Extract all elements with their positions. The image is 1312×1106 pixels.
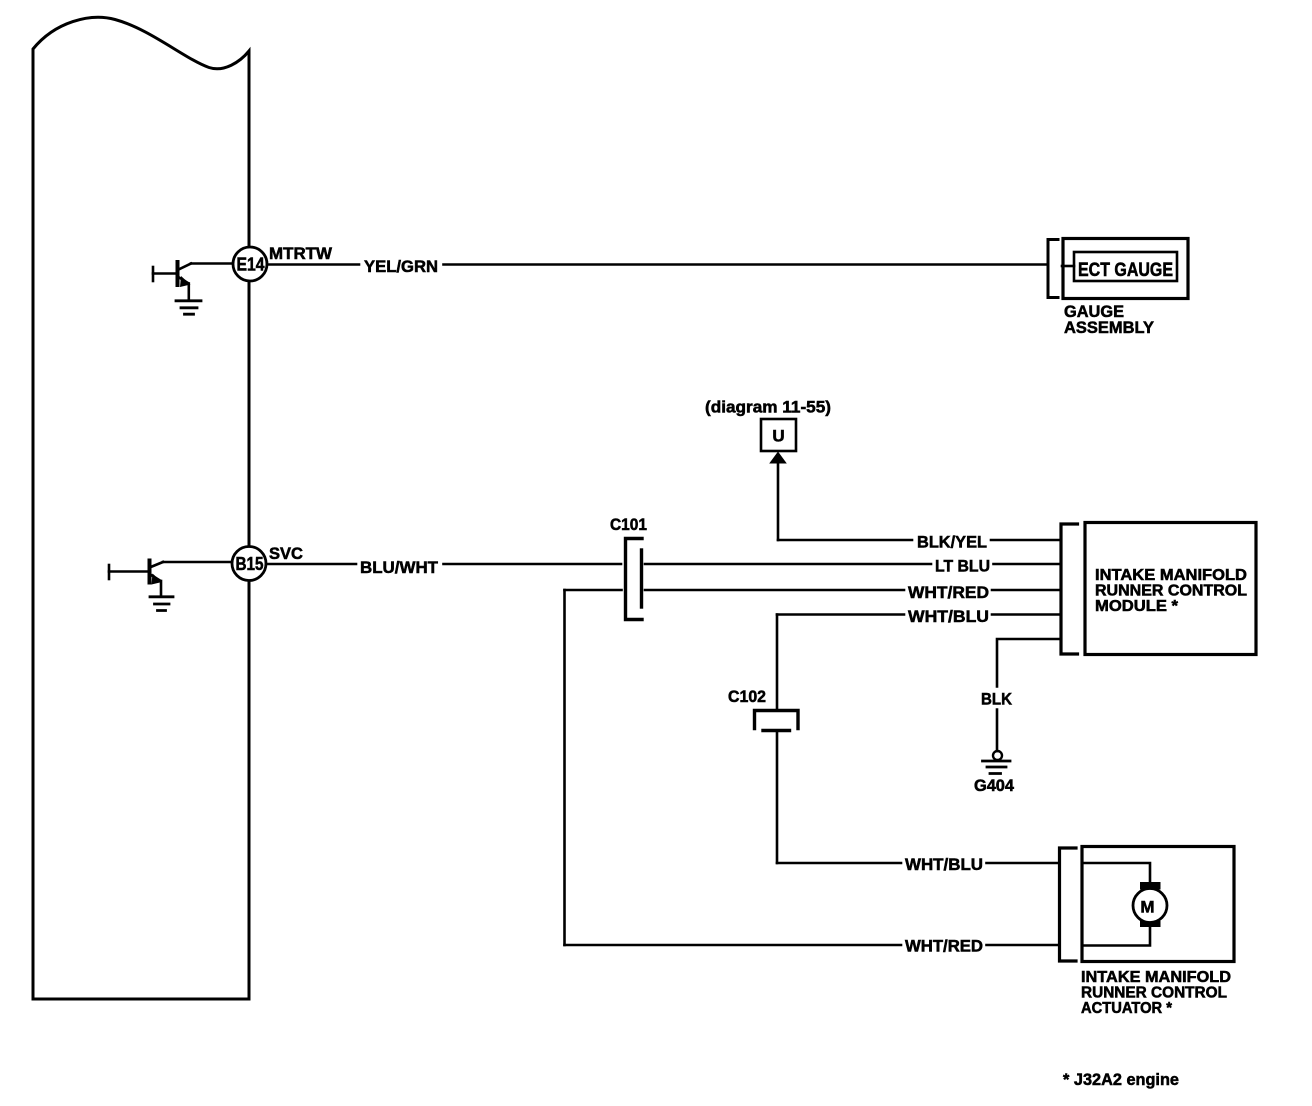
gauge assembly connector bracket [1048,240,1058,298]
svg-text:SVC: SVC [269,544,303,563]
actuator internal wires [1082,863,1150,946]
svg-text:RUNNER CONTROL: RUNNER CONTROL [1095,583,1247,600]
wire WHT/RED vertical riser [563,590,566,945]
label INTAKE MANIFOLD RUNNER CONTROL ACTUATOR [1081,969,1231,1017]
wire Q1 collector to E14 [191,262,234,265]
connector B15 [232,547,266,581]
svg-text:ASSEMBLY: ASSEMBLY [1064,318,1155,337]
svg-text:U: U [772,427,784,446]
U box (diagram reference) [761,419,796,451]
wire WHT/RED lower [565,944,1059,947]
connector C102 [755,711,799,731]
wire BLK/YEL [778,539,1061,542]
svg-text:RUNNER CONTROL: RUNNER CONTROL [1081,985,1227,1002]
svg-text:M: M [1140,898,1154,917]
wire WHT/BLU vertical through C102 [776,615,779,864]
svg-text:INTAKE MANIFOLD: INTAKE MANIFOLD [1095,567,1247,584]
label GAUGE ASSEMBLY [1064,302,1155,337]
transistor Q2 [109,561,163,596]
wire WHT/BLU upper [777,613,1061,616]
svg-text:ECT GAUGE: ECT GAUGE [1078,260,1173,281]
wire stub to ECT gauge [1062,265,1074,268]
ECM/PCM module outline (torn-top box) [33,17,249,999]
svg-text:ACTUATOR *: ACTUATOR * [1081,1000,1173,1017]
arrow head [769,452,787,464]
transistor Q1 [153,262,191,299]
module connector bracket [1061,524,1078,654]
wire YEL/GRN [267,263,1047,266]
gauge assembly box [1063,239,1188,299]
wire WHT/RED upper [565,589,1062,592]
connector E14 [233,247,267,281]
wire BLU/WHT [266,563,621,566]
svg-text:INTAKE MANIFOLD: INTAKE MANIFOLD [1081,969,1231,986]
wire Q2 collector to B15 [163,561,233,564]
svg-text:WHT/BLU: WHT/BLU [905,855,983,874]
ground (Q1 emitter) [176,301,201,314]
connector C101 [626,539,643,620]
svg-text:E14: E14 [237,255,265,275]
intake manifold runner control actuator box [1082,847,1234,962]
svg-text:C101: C101 [610,515,647,534]
ground (Q2 emitter) [150,597,173,611]
svg-text:BLU/WHT: BLU/WHT [360,558,439,577]
svg-text:BLK: BLK [981,690,1013,709]
svg-text:C102: C102 [728,687,766,706]
svg-text:LT BLU: LT BLU [935,557,990,576]
wire riser to U box [777,460,780,540]
wire LT BLU [645,563,1061,566]
ECT gauge box [1074,252,1177,281]
svg-text:BLK/YEL: BLK/YEL [917,533,987,552]
svg-text:WHT/BLU: WHT/BLU [908,607,989,626]
wire BLK [997,639,1061,751]
intake manifold runner control module box [1085,523,1256,655]
svg-text:B15: B15 [236,554,264,574]
svg-text:MODULE *: MODULE * [1095,598,1179,615]
ground G404 symbol [983,751,1011,774]
actuator connector bracket [1060,848,1077,961]
svg-text:(diagram 11-55): (diagram 11-55) [705,398,831,417]
svg-text:YEL/GRN: YEL/GRN [364,257,438,276]
label INTAKE MANIFOLD RUNNER CONTROL MODULE [1095,567,1247,615]
svg-text:MTRTW: MTRTW [269,244,333,263]
svg-text:G404: G404 [974,776,1015,795]
svg-text:WHT/RED: WHT/RED [905,937,983,956]
svg-text:WHT/RED: WHT/RED [908,583,989,602]
wire WHT/BLU lower [777,862,1059,865]
motor M [1133,882,1167,927]
svg-text:* J32A2 engine: * J32A2 engine [1063,1070,1179,1089]
